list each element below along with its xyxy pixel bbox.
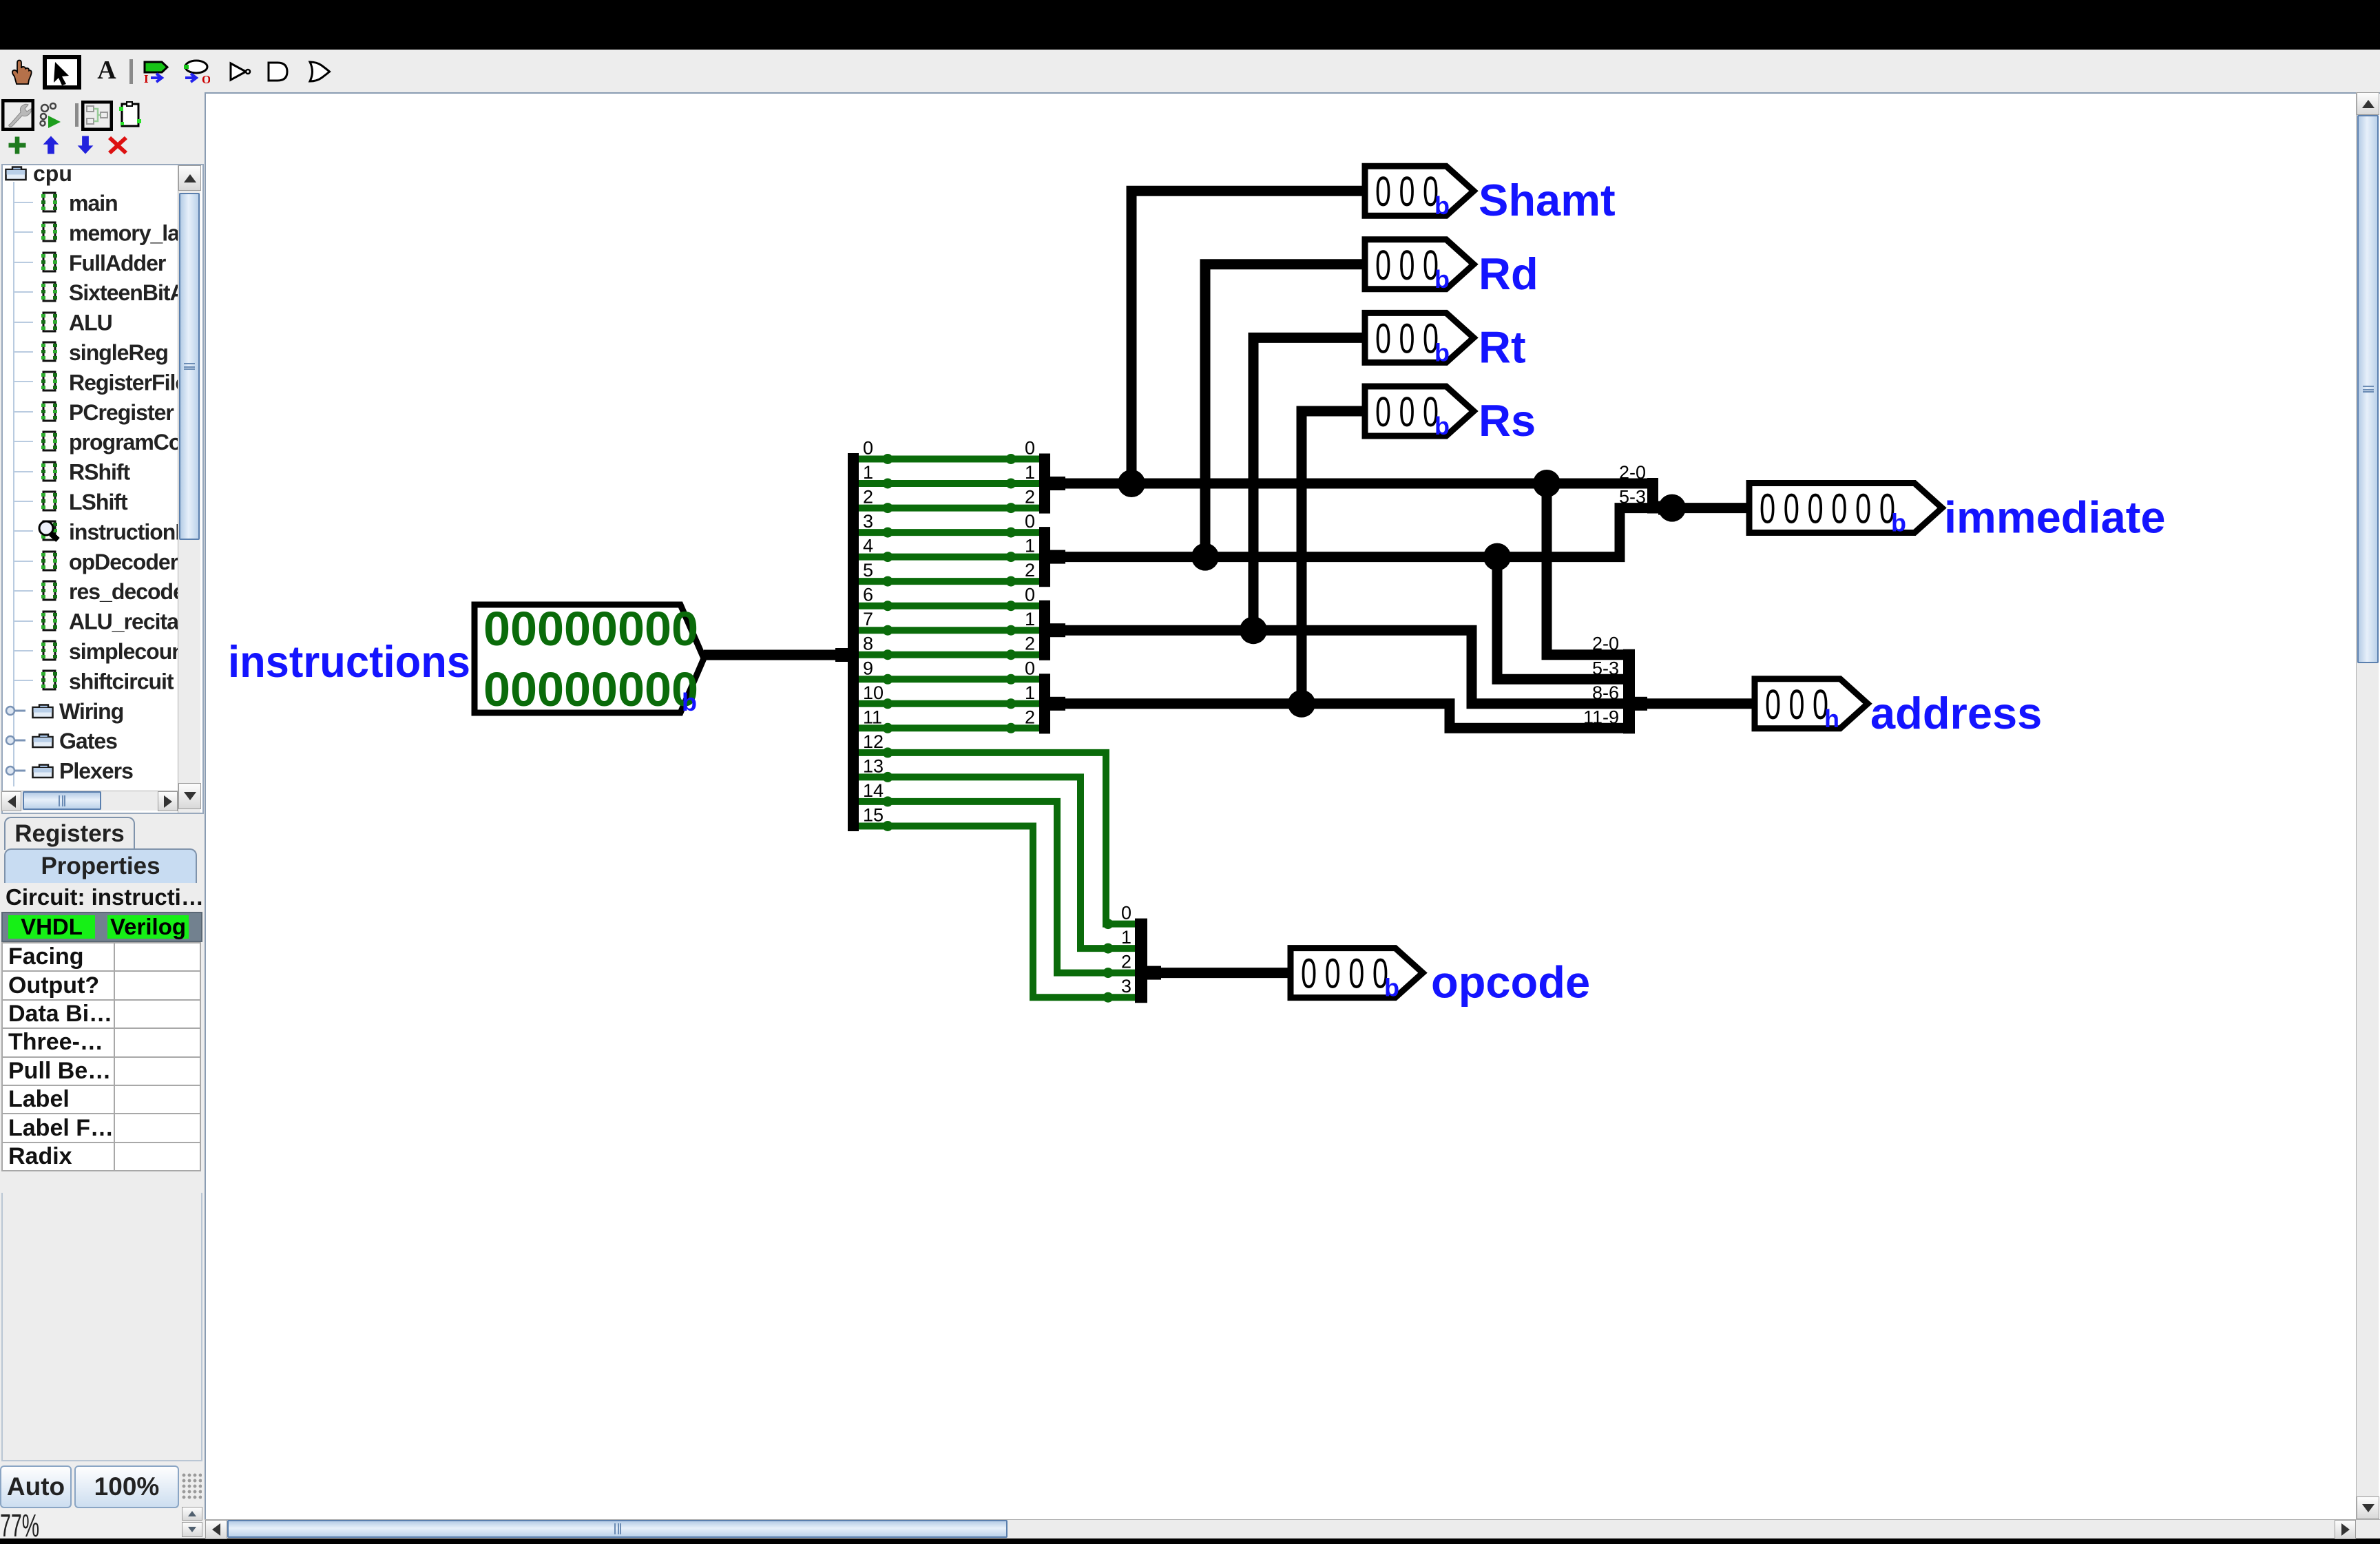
svg-text:6: 6 bbox=[863, 585, 873, 605]
svg-text:SixteenBitA: SixteenBitA bbox=[69, 280, 178, 305]
tree row: main bbox=[14, 202, 33, 203]
wire: bit 12 (green, routed to opcode splitter) bbox=[853, 753, 1147, 924]
svg-text:2-0: 2-0 bbox=[1619, 462, 1646, 483]
wire: bit 13 (green, routed to opcode splitter) bbox=[853, 777, 1147, 948]
svg-text:0 0 0 0: 0 0 0 0 bbox=[1301, 950, 1388, 997]
svg-text:11: 11 bbox=[863, 707, 882, 727]
wire: to address pin bbox=[1646, 698, 1755, 709]
left panel tool rows bbox=[0, 92, 205, 165]
svg-text:main: main bbox=[69, 191, 118, 216]
wire: bit 3 (green) bbox=[853, 529, 1044, 536]
junction: Shamt tap bbox=[1118, 470, 1145, 497]
svg-text:0 0 0: 0 0 0 bbox=[1375, 388, 1439, 435]
canvas horizontal scrollbar bbox=[205, 1519, 2380, 1538]
wire: bit 2 (green) bbox=[853, 505, 1044, 512]
explorer tree bbox=[1, 164, 204, 814]
wire: Rd riser bbox=[1205, 264, 1365, 557]
tree row: ALU bbox=[14, 322, 33, 323]
wire: riser to address 2-0 bbox=[1547, 483, 1623, 655]
svg-text:2: 2 bbox=[1025, 634, 1035, 654]
svg-text:7: 7 bbox=[863, 609, 873, 629]
svg-text:3: 3 bbox=[1121, 976, 1131, 997]
svg-text:Shamt: Shamt bbox=[1479, 175, 1616, 225]
svg-text:ALU_recitat: ALU_recitat bbox=[69, 609, 178, 634]
svg-text:b: b bbox=[1434, 338, 1450, 366]
wire: bit 15 (green, routed to opcode splitter) bbox=[853, 826, 1147, 998]
svg-text:0: 0 bbox=[1025, 658, 1035, 678]
svg-text:8: 8 bbox=[863, 634, 873, 654]
splitter SP1: 16-bit fan-out spine bbox=[848, 453, 859, 831]
splitter S6: address combiner (2-0,5-3,8-6,11-9) bbox=[1583, 634, 1647, 734]
wire: bit 14 (green, routed to opcode splitter) bbox=[853, 802, 1147, 973]
svg-text:address: address bbox=[1870, 688, 2042, 738]
wire: bit 6 (green) bbox=[853, 603, 1044, 609]
tree row: res_decode bbox=[14, 590, 33, 592]
svg-text:programCo: programCo bbox=[69, 430, 178, 455]
pin numbers 0-15 on SP1 bbox=[863, 438, 884, 826]
junction: Rs tap bbox=[1288, 690, 1315, 718]
output pin Rs bbox=[1365, 386, 1474, 440]
svg-text:2: 2 bbox=[1025, 707, 1035, 727]
svg-text:RShift: RShift bbox=[69, 460, 131, 485]
svg-text:0 0 0: 0 0 0 bbox=[1375, 168, 1439, 215]
svg-text:8-6: 8-6 bbox=[1592, 682, 1619, 703]
junction: Rd tap bbox=[1191, 543, 1219, 571]
svg-text:O: O bbox=[202, 73, 210, 84]
svg-text:b: b bbox=[1891, 509, 1906, 537]
svg-text:0: 0 bbox=[1121, 903, 1131, 924]
svg-text:13: 13 bbox=[863, 755, 884, 776]
splitter C2: combiner bits 3-5 bbox=[1025, 511, 1065, 587]
svg-text:opDecoder: opDecoder bbox=[69, 550, 178, 574]
output pin immediate (6-bit) bbox=[1749, 483, 1942, 537]
splitter C1: combiner bits 0-2 bbox=[1025, 438, 1065, 514]
splitter S7: opcode combiner (bits 12-15) bbox=[1121, 903, 1161, 1003]
wire: bit 11 (green) bbox=[853, 724, 1044, 731]
svg-text:5: 5 bbox=[863, 560, 873, 581]
wire: bit 8 (green) bbox=[853, 651, 1044, 658]
svg-text:1: 1 bbox=[863, 462, 873, 483]
tree row: memory_lat bbox=[14, 231, 33, 233]
svg-text:Rt: Rt bbox=[1479, 322, 1526, 372]
tree row: singleReg bbox=[14, 351, 33, 353]
junction: immediate trunk bbox=[1658, 494, 1686, 522]
svg-text:Rs: Rs bbox=[1479, 395, 1536, 446]
svg-text:14: 14 bbox=[863, 780, 884, 801]
svg-text:singleReg: singleReg bbox=[69, 340, 168, 365]
output pin Shamt (3-bit) bbox=[1365, 166, 1474, 220]
svg-text:I: I bbox=[144, 72, 149, 84]
svg-text:0: 0 bbox=[1025, 511, 1035, 532]
status spinner bbox=[182, 1507, 202, 1521]
output pin address (hex) bbox=[1755, 679, 1868, 733]
svg-text:4: 4 bbox=[863, 536, 873, 556]
input pin "instructions" 16-bit bbox=[474, 602, 704, 716]
tree row: FullAdder bbox=[14, 262, 33, 263]
svg-text:b: b bbox=[1434, 412, 1450, 440]
wire: riser to address 5-3 bbox=[1497, 557, 1623, 680]
svg-text:5-3: 5-3 bbox=[1619, 487, 1646, 508]
svg-text:immediate: immediate bbox=[1944, 492, 2166, 543]
svg-text:b: b bbox=[1434, 265, 1450, 293]
svg-text:12: 12 bbox=[863, 731, 884, 752]
tree row: Gates folder bbox=[6, 736, 25, 744]
svg-text:FullAdder: FullAdder bbox=[69, 251, 166, 275]
svg-text:instructionI: instructionI bbox=[69, 519, 178, 544]
tabs bbox=[4, 817, 135, 850]
tree row: Wiring folder bbox=[6, 707, 25, 715]
svg-text:Wiring: Wiring bbox=[59, 699, 123, 724]
svg-text:b: b bbox=[682, 688, 697, 716]
svg-text:ALU: ALU bbox=[69, 311, 112, 335]
svg-text:0: 0 bbox=[1025, 438, 1035, 459]
tree vertical scrollbar bbox=[178, 165, 200, 813]
svg-text:res_decode: res_decode bbox=[69, 579, 178, 604]
wire: bit 5 (green) bbox=[853, 578, 1044, 585]
svg-text:1: 1 bbox=[1121, 927, 1131, 948]
tree row: ALU_recitat bbox=[14, 620, 33, 622]
tree horizontal scrollbar bbox=[1, 791, 178, 811]
window title bar (black) bbox=[0, 0, 2380, 50]
svg-text:1: 1 bbox=[1025, 536, 1035, 556]
main toolbar bbox=[0, 50, 2380, 92]
svg-text:0: 0 bbox=[1025, 585, 1035, 605]
output pin Rt bbox=[1365, 313, 1474, 366]
wire: Rt riser bbox=[1253, 337, 1365, 630]
canvas vertical scrollbar bbox=[2356, 92, 2379, 1519]
tree row: simplecoun bbox=[14, 650, 33, 651]
svg-text:10: 10 bbox=[863, 682, 884, 703]
svg-text:opcode: opcode bbox=[1431, 957, 1590, 1008]
splitter S5: immediate combiner (2-0,5-3) bbox=[1619, 462, 1671, 515]
junction: address 5-3 tap bbox=[1483, 543, 1511, 571]
wire: to opcode pin bbox=[1157, 968, 1291, 978]
wire: bit 9 (green) bbox=[853, 676, 1044, 682]
svg-text:0 0 0: 0 0 0 bbox=[1375, 315, 1439, 362]
svg-text:cpu: cpu bbox=[33, 165, 72, 186]
svg-text:2: 2 bbox=[1025, 487, 1035, 508]
splitter C4: combiner bits 9-11 bbox=[1025, 658, 1065, 733]
svg-text:00000000: 00000000 bbox=[483, 663, 698, 716]
svg-text:Gates: Gates bbox=[59, 729, 117, 753]
tree row: instructionI bbox=[14, 530, 33, 532]
tree row: programCo bbox=[14, 441, 33, 442]
tree row: Arithmetic folder bbox=[6, 796, 25, 804]
wire: bus bits3-5 (y809) bbox=[1064, 508, 1647, 557]
svg-text:2: 2 bbox=[863, 487, 873, 508]
svg-text:1: 1 bbox=[1025, 609, 1035, 629]
wire: bus bits6-8 (y915) bbox=[1064, 630, 1623, 704]
wire: bus bits0-2 (y702) bbox=[1064, 479, 1647, 489]
wire: to immediate pin bbox=[1667, 503, 1749, 513]
junction: address 2-0 tap bbox=[1533, 470, 1560, 497]
tree row: SixteenBitA bbox=[14, 291, 33, 293]
wire: instructions trunk to splitter bbox=[704, 650, 842, 660]
svg-text:1: 1 bbox=[1025, 682, 1035, 703]
wire: Shamt riser bbox=[1131, 191, 1365, 483]
svg-text:h: h bbox=[1824, 705, 1839, 733]
svg-text:9: 9 bbox=[863, 658, 873, 678]
wire: bit 4 (green) bbox=[853, 554, 1044, 561]
wire: bit 10 (green) bbox=[853, 700, 1044, 707]
svg-text:RegisterFile: RegisterFile bbox=[69, 370, 178, 395]
svg-text:0 0 0: 0 0 0 bbox=[1765, 681, 1828, 728]
svg-text:0 0 0 0 0 0: 0 0 0 0 0 0 bbox=[1760, 486, 1895, 532]
svg-text:A: A bbox=[97, 58, 116, 83]
splitter C3: combiner bits 6-8 bbox=[1025, 585, 1065, 660]
svg-text:shiftcircuit: shiftcircuit bbox=[69, 669, 174, 693]
svg-text:5-3: 5-3 bbox=[1592, 658, 1619, 678]
wire: Rs riser bbox=[1302, 411, 1365, 704]
tree row: shiftcircuit bbox=[14, 680, 33, 681]
svg-text:2: 2 bbox=[1025, 560, 1035, 581]
svg-text:Plexers: Plexers bbox=[59, 759, 133, 784]
wire: bus bits9-11 (y1022) bbox=[1064, 704, 1623, 729]
junction: Rt tap bbox=[1240, 616, 1267, 644]
svg-text:simplecoun: simplecoun bbox=[69, 639, 178, 664]
output pin opcode (4-bit) bbox=[1291, 948, 1423, 1002]
tree row: LShift bbox=[14, 501, 33, 502]
tree row: Plexers folder bbox=[6, 766, 25, 775]
output pin Rd bbox=[1365, 240, 1474, 293]
svg-text:00000000: 00000000 bbox=[483, 602, 698, 656]
svg-text:15: 15 bbox=[863, 805, 884, 826]
svg-text:0: 0 bbox=[863, 438, 873, 459]
svg-text:1: 1 bbox=[1025, 462, 1035, 483]
tree row: RShift bbox=[14, 471, 33, 472]
tree row: RegisterFile bbox=[14, 381, 33, 382]
svg-text:11-9: 11-9 bbox=[1583, 707, 1619, 727]
wire: bit 7 (green) bbox=[853, 627, 1044, 634]
tree row: cpu bbox=[6, 167, 26, 180]
svg-text:Rd: Rd bbox=[1479, 249, 1538, 299]
svg-text:b: b bbox=[1434, 191, 1450, 220]
tree row: PCregister bbox=[14, 411, 33, 413]
svg-text:2: 2 bbox=[1121, 952, 1131, 972]
svg-text:b: b bbox=[1384, 974, 1399, 1002]
wire: bit 0 (green) bbox=[853, 456, 1044, 463]
svg-text:3: 3 bbox=[863, 511, 873, 532]
svg-text:2-0: 2-0 bbox=[1592, 634, 1619, 654]
svg-text:PCregister: PCregister bbox=[69, 400, 174, 425]
svg-text:instructions: instructions bbox=[228, 636, 470, 687]
tree row: opDecoder bbox=[14, 561, 33, 562]
svg-text:LShift: LShift bbox=[69, 490, 128, 514]
svg-text:memory_lat: memory_lat bbox=[69, 220, 178, 245]
wire: bit 1 (green) bbox=[853, 480, 1044, 487]
svg-text:0 0 0: 0 0 0 bbox=[1375, 242, 1439, 289]
